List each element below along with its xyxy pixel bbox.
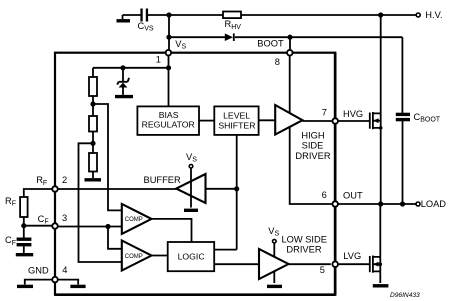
wire: low side VS stub xyxy=(273,244,275,257)
wire: divider top rail xyxy=(93,68,169,77)
node: VS/diode junction xyxy=(166,35,171,40)
pin 3 circle xyxy=(52,223,58,229)
wire: VS to diode xyxy=(169,36,225,38)
wire: junction to pin 3 xyxy=(24,225,52,227)
svg-text:COMP: COMP xyxy=(125,217,143,223)
svg-text:HVG: HVG xyxy=(343,109,363,119)
op-amp high side driver xyxy=(275,105,302,135)
wire: level shifter to high side driver xyxy=(259,119,275,121)
svg-text:COMP: COMP xyxy=(125,254,143,260)
svg-text:LOGIC: LOGIC xyxy=(178,252,205,262)
wire: R2 to R3 xyxy=(92,132,94,154)
pin 7 circle xyxy=(332,118,338,124)
wire: BOOT junction down to pin 8 xyxy=(289,37,291,49)
svg-text:OUT: OUT xyxy=(343,190,363,200)
wire: CVS to RHV xyxy=(148,14,223,16)
wire: pin 5 to Q2 gate xyxy=(339,263,369,265)
box LOGIC xyxy=(168,242,215,271)
svg-text:REGULATOR: REGULATOR xyxy=(142,120,195,130)
node: pin1/divider junction xyxy=(166,65,171,70)
transistor Q2 (low side MOSFET) xyxy=(370,256,382,273)
wire: R1 to R2 xyxy=(92,96,94,116)
wire: low side output to pin 5 xyxy=(289,263,331,265)
wire: ground to capacitor CVS xyxy=(123,14,141,16)
resistor RHV xyxy=(223,12,241,19)
node: divider tap 2 xyxy=(90,141,95,146)
svg-text:7: 7 xyxy=(322,108,327,118)
IC outline xyxy=(55,53,335,295)
ground (CVS) xyxy=(117,15,131,21)
node: VS top junction xyxy=(166,12,171,17)
svg-text:GND: GND xyxy=(28,266,49,276)
wire: logic to level shifter line xyxy=(214,249,237,251)
wire: OUT line to LOAD xyxy=(338,203,416,205)
wire: pin 7 to Q1 gate xyxy=(339,120,369,122)
wire: buffer VS stub through triangle to ground xyxy=(190,169,192,208)
box BIAS REGULATOR xyxy=(137,106,199,134)
wire: CBOOT top drop xyxy=(401,37,403,113)
transistor Q1 (high side MOSFET) xyxy=(370,112,383,130)
wire: high side driver bottom to pin 6 xyxy=(290,127,332,204)
box LEVEL SHIFTER xyxy=(214,106,258,134)
diode (bootstrap) xyxy=(225,33,234,41)
wire: Q1 source to OUT line xyxy=(380,128,382,204)
capacitor CVS xyxy=(140,9,148,22)
resistor R3 (divider bottom) xyxy=(89,153,97,172)
node: RF/CF junction xyxy=(21,223,26,228)
pin 5 circle xyxy=(332,261,338,267)
op-amp low side driver xyxy=(259,249,289,279)
ground (Q2 source) xyxy=(373,284,389,287)
pin 6 circle xyxy=(332,201,338,207)
wire: tap2 to comparator 2 lower input xyxy=(79,143,122,262)
wire: comp2 output to logic xyxy=(152,255,168,257)
resistor R1 (divider top) xyxy=(89,77,97,96)
svg-text:SIDE: SIDE xyxy=(302,141,324,151)
wire: logic to low side driver xyxy=(214,263,259,265)
svg-text:2: 2 xyxy=(62,175,67,185)
wire: buffer input from junction xyxy=(206,188,237,190)
svg-text:LVG: LVG xyxy=(343,251,361,261)
wire: pin 4 to internal ground xyxy=(58,280,78,285)
ground (CF) xyxy=(16,253,33,256)
svg-text:BOOT: BOOT xyxy=(257,39,284,49)
svg-text:3: 3 xyxy=(62,213,67,223)
resistor RF (external) xyxy=(20,197,28,217)
wire: pin8 to high side driver top xyxy=(289,56,291,114)
terminal LOAD xyxy=(416,202,420,206)
wire: pin 4 to left ground xyxy=(25,280,52,285)
ground (buffer) xyxy=(184,209,198,212)
ground (divider) xyxy=(85,172,102,180)
zener diode xyxy=(115,68,133,97)
node: zener top xyxy=(120,65,125,70)
node: OUT/Q source junction xyxy=(378,201,383,206)
resistor R2 (divider middle) xyxy=(89,116,97,132)
svg-text:H.V.: H.V. xyxy=(425,10,442,20)
wire: pin2 to external RF xyxy=(24,189,52,197)
wire: buffer output to pin 2 xyxy=(59,188,177,190)
svg-text:LEVEL: LEVEL xyxy=(223,111,250,121)
svg-text:D96IN433: D96IN433 xyxy=(390,292,420,299)
buffer triangle xyxy=(176,174,205,203)
wire: tap1 to comparator 1 upper input xyxy=(93,104,122,210)
node: H.V. junction xyxy=(378,12,383,17)
svg-text:6: 6 xyxy=(322,190,327,200)
terminal H.V. xyxy=(416,13,420,17)
wire: Q2 drain to OUT line xyxy=(379,204,381,257)
svg-text:8: 8 xyxy=(275,57,280,67)
wire: H.V. down to Q1 drain xyxy=(380,15,382,113)
wire: high side driver output to pin 7 xyxy=(303,120,332,122)
svg-text:LOAD: LOAD xyxy=(421,199,447,209)
wire: pin3 to comparators xyxy=(58,227,121,249)
svg-text:LOW SIDE: LOW SIDE xyxy=(281,235,326,245)
svg-text:1: 1 xyxy=(156,55,161,65)
capacitor CBOOT xyxy=(396,114,410,119)
pin 4 circle xyxy=(52,277,58,283)
svg-text:BIAS: BIAS xyxy=(159,110,179,120)
wire: diode to CBOOT drop xyxy=(235,36,403,38)
pin 8 circle xyxy=(287,50,293,56)
capacitor CF (external) xyxy=(17,226,32,253)
pin 2 circle xyxy=(52,186,58,192)
comparator COMP1 xyxy=(122,204,152,234)
wire: VS vertical to pin 1 xyxy=(168,15,170,49)
wire: low side ground stub xyxy=(273,271,275,283)
svg-text:4: 4 xyxy=(62,265,67,275)
VS circle (buffer) xyxy=(189,164,193,168)
wire: level shifter down to logic xyxy=(236,135,238,250)
ground (pin4 left) xyxy=(17,285,33,288)
wire: RHV to H.V. terminal xyxy=(241,14,416,16)
svg-text:SHIFTER: SHIFTER xyxy=(218,121,255,131)
node: CF comparator junction xyxy=(105,224,110,229)
node: OUT/CBOOT junction xyxy=(400,201,405,206)
wire: CBOOT bottom to OUT xyxy=(402,121,404,204)
comparator COMP2 xyxy=(122,241,152,271)
svg-text:DRIVER: DRIVER xyxy=(286,245,321,255)
pin 1 circle xyxy=(166,50,172,56)
node: divider tap 1 xyxy=(90,101,95,106)
node: BOOT junction xyxy=(287,35,292,40)
VS circle (low side) xyxy=(273,239,277,243)
svg-text:BUFFER: BUFFER xyxy=(144,175,181,185)
ground (pin4 right) xyxy=(70,285,85,288)
node: buffer input junction xyxy=(234,186,239,191)
ground (low side driver) xyxy=(267,285,282,288)
wire: comp1 output to logic top xyxy=(152,219,192,242)
label LOW SIDE DRIVER xyxy=(281,235,326,255)
label HIGH SIDE DRIVER xyxy=(295,131,330,161)
wire: Q2 source to ground xyxy=(379,271,381,283)
svg-text:HIGH: HIGH xyxy=(301,131,324,141)
svg-text:5: 5 xyxy=(320,265,325,275)
wire: pin1 down to bias regulator xyxy=(168,56,170,106)
wire: bias regulator to level shifter xyxy=(199,120,214,122)
svg-text:DRIVER: DRIVER xyxy=(295,151,330,161)
wire: RF to CF junction xyxy=(23,217,25,226)
